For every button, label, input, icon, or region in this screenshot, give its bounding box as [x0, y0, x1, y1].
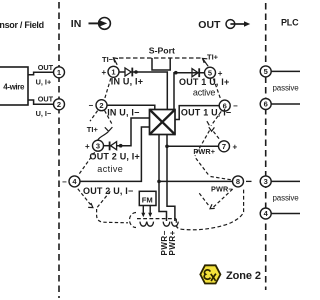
svg-text:OUT 2 U, I−: OUT 2 U, I− — [83, 186, 133, 196]
svg-text:TI−: TI− — [102, 55, 114, 64]
wire disconnect zigzag below 8 right — [214, 188, 234, 207]
wire test interface dashed line (top) — [119, 57, 201, 59]
svg-text:4-wire: 4-wire — [3, 82, 25, 91]
wire PLC boundary dashed line — [265, 3, 267, 290]
svg-text:+: + — [85, 142, 90, 151]
wire disconnect zigzag 5-6 — [213, 79, 220, 100]
svg-text:1: 1 — [57, 68, 61, 77]
svg-text:TI+: TI+ — [87, 125, 99, 134]
wire PLC 3 — [271, 180, 300, 182]
wire disconnect zigzag 6-arrow — [211, 111, 221, 126]
svg-text:OUT 1 U, I+: OUT 1 U, I+ — [179, 77, 229, 87]
wire sensor boundary dashed line — [58, 2, 60, 298]
terminal 2 (field side) — [54, 99, 65, 110]
node junction PWR- — [157, 180, 161, 184]
svg-text:IN: IN — [71, 18, 82, 30]
plug boundary bracket — [130, 213, 136, 228]
bus socket PWR+ — [172, 222, 179, 227]
diode D1 (input) — [125, 68, 131, 76]
wire PLC 5 — [271, 70, 300, 72]
svg-text:3: 3 — [264, 177, 268, 186]
diode D3 (OUT2) — [104, 145, 110, 147]
svg-text:−: − — [89, 101, 94, 110]
svg-text:active: active — [97, 164, 123, 174]
test arrow TI+ at contact 5 — [203, 58, 209, 66]
svg-text:passive: passive — [273, 83, 300, 92]
svg-text:IN U, I+: IN U, I+ — [111, 77, 143, 87]
svg-text:7: 7 — [222, 142, 226, 151]
wire disconnect zigzag 2-TI right leg — [105, 111, 113, 126]
svg-text:OUT 1 U, I−: OUT 1 U, I− — [181, 108, 231, 118]
node junction OUT2+ — [119, 144, 123, 148]
contact 2 (module) — [96, 100, 107, 111]
svg-text:U, I−: U, I− — [36, 109, 52, 118]
wire disconnect zigzag 1-2 — [105, 78, 111, 98]
svg-text:OUT: OUT — [198, 19, 221, 31]
svg-text:2: 2 — [57, 100, 61, 109]
contact 4 (module) — [69, 176, 80, 187]
svg-text:U, I+: U, I+ — [36, 77, 52, 86]
OUT port symbol — [226, 20, 245, 29]
wire OUT1+ from transformer up — [174, 73, 191, 110]
wire disconnect zigzag branch up — [97, 191, 110, 207]
wire IN- to transformer — [107, 105, 155, 109]
svg-text:IN U, I−: IN U, I− — [107, 108, 139, 118]
PLC terminal 4 — [260, 208, 271, 219]
svg-text:OUT: OUT — [38, 63, 54, 72]
wire PWR- to contact 8 — [159, 180, 233, 182]
test arrow between 6 and 7 — [207, 121, 215, 131]
FM output arrow left — [142, 206, 144, 214]
wire disconnect zigzag arrow-PWR — [195, 131, 210, 157]
wire disconnect zigzag below 4 — [78, 189, 93, 207]
svg-text:−: − — [62, 177, 67, 186]
wire plug boundary dashed (bottom) — [137, 218, 176, 220]
wire PWR+ from transformer — [167, 135, 175, 222]
wire OUT2- to transformer — [80, 127, 150, 181]
svg-text:PWR+: PWR+ — [168, 230, 177, 255]
test arrow below contact 8 — [210, 204, 215, 209]
svg-text:8: 8 — [236, 177, 240, 186]
svg-text:S-Port: S-Port — [149, 46, 175, 56]
wire IN+ to transformer — [132, 72, 167, 110]
PLC terminal 3 — [260, 176, 271, 187]
wire disconnect zigzag 2-TI left leg — [90, 111, 98, 122]
svg-text:3: 3 — [96, 141, 100, 150]
wire disconnect zigzag arrow-7 — [213, 132, 219, 140]
wire contact1 to diode — [119, 71, 125, 73]
contact 3 (module) — [93, 140, 104, 151]
svg-text:passive: passive — [273, 194, 300, 203]
svg-text:+: + — [233, 143, 238, 152]
wire 4-wire OUT+ to terminal 1 — [28, 72, 54, 74]
contact 6 (module) — [219, 100, 230, 111]
test arrow TI+ at contact 3 — [98, 127, 113, 140]
contact 7 (module) — [219, 141, 230, 152]
svg-text:FM: FM — [142, 195, 153, 204]
svg-text:TI+: TI+ — [207, 52, 219, 61]
PLC terminal 5 — [260, 66, 271, 77]
plug boundary curve right — [176, 188, 243, 230]
svg-text:+: + — [102, 68, 107, 77]
wire 4-wire OUT- to terminal 2 — [28, 100, 54, 104]
wire disconnect zigzag to 8 — [211, 177, 232, 180]
node junction OUT1+ — [174, 71, 178, 75]
FM output arrow right — [149, 206, 151, 214]
svg-text:OUT: OUT — [38, 95, 54, 104]
wire PLC 4 — [271, 213, 300, 215]
isolation transformer (X block) — [150, 110, 176, 135]
FM box — [139, 191, 156, 205]
svg-text:5: 5 — [264, 67, 268, 76]
wire disconnect zigzag below 8 left — [199, 193, 209, 206]
diode D2 (OUT1) — [192, 69, 198, 77]
IN port symbol — [89, 18, 111, 30]
4-wire device box — [0, 67, 28, 105]
PLC terminal 6 — [260, 99, 271, 110]
svg-text:Zone 2: Zone 2 — [226, 270, 261, 282]
svg-text:6: 6 — [264, 100, 268, 109]
bus socket FM left — [140, 222, 147, 227]
svg-text:2: 2 — [99, 101, 103, 110]
wire PWR+ to contact 7 — [167, 145, 219, 147]
wire dashed link contact8 to PLC terminal 3 — [246, 180, 252, 182]
svg-text:−: − — [233, 102, 238, 111]
wire PWR- from transformer — [159, 135, 167, 222]
bus socket FM right — [147, 222, 154, 227]
wire disconnect curve to plug area — [97, 209, 128, 223]
bus socket PWR- — [163, 222, 170, 227]
node junction PWR+ — [165, 145, 169, 149]
svg-text:PWR+: PWR+ — [193, 147, 215, 156]
terminal 1 (field side) — [54, 67, 65, 78]
wire OUT1- from transformer to contact 6 — [175, 106, 219, 120]
svg-text:active: active — [193, 88, 216, 98]
test arrow below contact 4 — [88, 203, 93, 208]
wire PLC 6 — [271, 103, 300, 105]
svg-text:PLC: PLC — [281, 17, 299, 27]
node junction IN+ — [134, 70, 138, 74]
svg-text:OUT 2 U, I+: OUT 2 U, I+ — [90, 152, 140, 162]
wire OUT2+ to transformer — [117, 118, 150, 146]
svg-text:PWR−: PWR− — [211, 184, 233, 193]
Ex zone symbol — [200, 265, 220, 283]
wire disconnect zigzag 3-4 — [78, 152, 94, 175]
contact 1 (module) — [108, 66, 119, 77]
wire diode to contact 5 — [186, 72, 205, 74]
contact 8 (module) — [233, 176, 244, 187]
svg-text:1: 1 — [111, 68, 115, 77]
test arrow TI- at contact 1 — [113, 58, 118, 65]
svg-text:Sensor / Field: Sensor / Field — [0, 20, 44, 30]
contact 5 (module) — [205, 67, 216, 78]
S-Port connector — [152, 58, 170, 70]
wire disconnect zigzag down to 8 — [196, 158, 210, 176]
